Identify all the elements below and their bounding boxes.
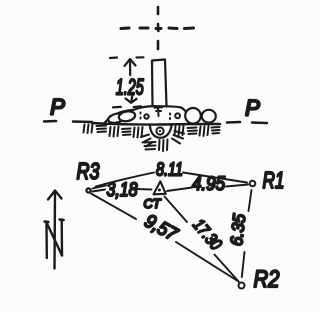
line R3 to R1 (8.11) left segment [96,173,155,187]
dimension dashes at mound top [113,106,121,109]
mound mark colon-6 [141,113,149,119]
line R3 to R2 (9,57) upper segment [91,194,136,220]
hatch group 4 [122,129,131,136]
line triangle to R2 (17.30) lower segment [215,255,240,283]
hatch group right 3 [200,126,209,136]
svg-text:17.30: 17.30 [189,215,226,254]
line triangle to R1 (4.95) left segment [167,188,192,192]
line R3 to R1 (8.11) right segment [183,173,247,183]
svg-text:R2: R2 [254,266,280,293]
svg-text:P: P [50,95,65,120]
svg-text:P: P [245,96,260,121]
rays lower-left of bump [141,135,153,147]
ground solid line under mound [92,123,220,125]
dimension arrow up [129,61,131,75]
line R1 to R2 (6.35) upper segment [249,190,252,211]
centerline vertical dashed [157,7,160,49]
line triangle to R2 (17.30) upper segment [165,197,188,223]
stone right 2 [202,110,216,123]
buried mark circle [156,127,163,134]
line triangle to R1 (4.95) right segment [226,185,248,187]
hatch group 5 [134,127,143,138]
mound mark T [155,107,163,117]
hatch group 1 [84,124,93,133]
svg-text:8.11: 8.11 [156,160,183,180]
svg-text:6.35: 6.35 [227,213,249,247]
centerline horizontal dashed [121,27,194,31]
hatch group below bump horizontal [145,142,156,150]
hatch group 3 [110,127,119,137]
hatch group 2 [97,126,107,133]
rays lower-right of bump [172,131,184,144]
dimension arrow down [131,96,132,103]
monument post [152,60,167,107]
line 3,18 to triangle [138,188,152,191]
point R1 [250,181,256,187]
north arrow head [48,191,62,200]
svg-text:1.25: 1.25 [116,75,144,100]
hatch group right 2 [188,128,198,135]
svg-text:R3: R3 [77,158,100,184]
mound outline [104,106,190,123]
line R3 ticks (3,18 start) [93,186,107,192]
svg-text:4.95: 4.95 [192,174,225,195]
svg-text:R1: R1 [263,167,285,193]
stone left pair [107,112,125,124]
point R3 [85,187,91,193]
north arrow shaft [53,193,56,269]
hatch group right 1 [175,126,184,136]
ground dashed line right [227,122,267,123]
hatch group below bump vertical [159,140,168,152]
svg-text:CT: CT [144,196,162,211]
line R1 to R2 (6.35) lower segment [242,252,245,277]
hatch group right 4 [212,127,220,134]
stone right 1 [185,108,201,124]
mound mark colon-o [170,113,180,119]
station triangle [154,181,166,194]
dimension dashes at post top [110,56,117,59]
north letter N [45,220,64,259]
point R2 [239,283,245,289]
ground dashed line left [44,121,92,122]
svg-text:9,57: 9,57 [141,211,182,246]
line R3 to R2 (9,57) lower segment [176,242,239,282]
buried mark bump [150,125,172,138]
